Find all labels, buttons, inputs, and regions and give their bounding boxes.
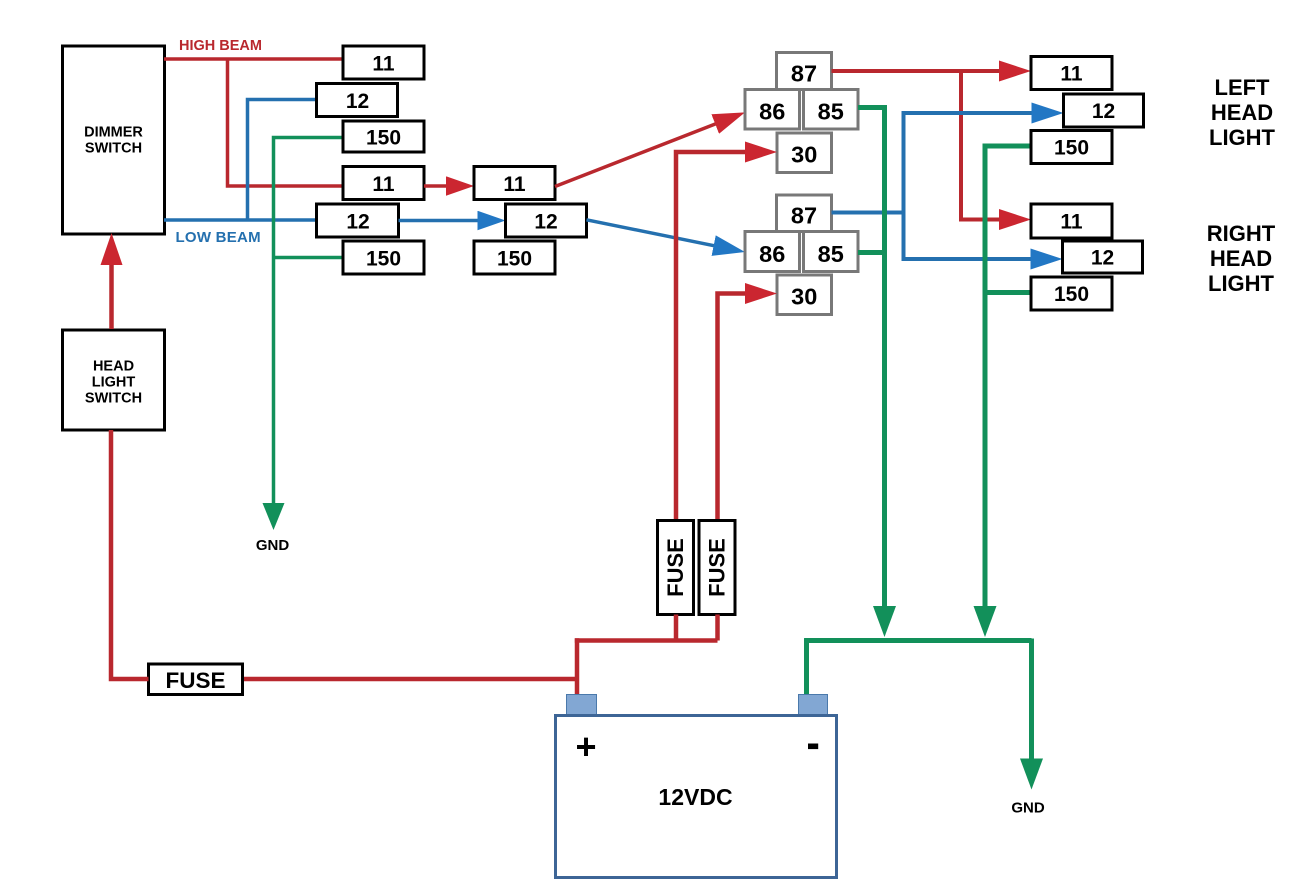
wire: blue vertical down to right headlight 12 (904, 213, 1047, 260)
wire: red riser to battery plus (575, 638, 580, 695)
svg-text:+: + (575, 726, 596, 767)
wire: green from left headlight 150 down to ground bus (985, 146, 1031, 622)
connector pin box 12 mid (506, 204, 587, 237)
wire: red from relay1 87 to left headlight 11 (832, 69, 1016, 73)
wire: red from battery riser to main fuse (243, 677, 578, 682)
svg-text:HEAD: HEAD (1211, 100, 1273, 125)
svg-text:11: 11 (503, 173, 526, 196)
wire: high beam red from dimmer to pin 11 (164, 57, 343, 61)
svg-text:12: 12 (346, 211, 369, 234)
left headlight pin 12 (1064, 94, 1144, 127)
wire: red arrow pin 11 to pin 11 mid (424, 184, 460, 188)
svg-text:SWITCH: SWITCH (85, 391, 142, 407)
svg-text:12: 12 (346, 90, 369, 113)
right headlight pin 11 (1031, 204, 1112, 238)
dimmer switch box (63, 46, 165, 234)
connector pin box 150 lower-left (343, 241, 424, 274)
wire: green bus drop to battery minus (804, 638, 809, 695)
connector pin box 150 mid (474, 241, 555, 274)
wire: head light switch to dimmer switch (red up arrow) (109, 249, 114, 329)
connector pin box 11 upper-left (343, 46, 424, 79)
svg-text:HEAD: HEAD (93, 359, 134, 375)
battery 12VDC (556, 716, 837, 878)
main fuse box (149, 664, 243, 695)
svg-text:GND: GND (256, 537, 290, 554)
svg-text:85: 85 (818, 99, 844, 125)
svg-text:11: 11 (372, 53, 395, 76)
connector pin box 12 upper-left (317, 84, 398, 117)
svg-text:150: 150 (497, 248, 532, 271)
svg-text:LIGHT: LIGHT (1208, 271, 1275, 296)
left headlight pin 11 (1031, 57, 1112, 90)
relay 1 pin 30 (777, 133, 832, 173)
relay 2 pin 30 (777, 275, 832, 315)
relay 1 pin 87 (777, 53, 832, 90)
svg-text:11: 11 (1060, 211, 1083, 234)
wire: red bus below fuses (575, 615, 718, 641)
wire: green from relay1 85 down to ground bus (858, 108, 885, 622)
relay 2 pin 85 (804, 232, 859, 272)
wire: green ground bus (804, 638, 1031, 643)
svg-text:30: 30 (791, 284, 817, 310)
head light switch box (63, 330, 165, 430)
relay 2 pin 86 (745, 232, 800, 272)
svg-text:86: 86 (759, 241, 785, 267)
wire: blue from relay2 87 to vertical (832, 211, 904, 215)
wire: red diagonal pin 11 mid to relay1 86 (555, 118, 730, 186)
svg-text:FUSE: FUSE (663, 538, 688, 597)
svg-text:FUSE: FUSE (705, 538, 730, 597)
svg-text:12: 12 (534, 211, 557, 234)
wire: blue vertical up to left headlight 12 (904, 113, 1048, 213)
wire: green bus to GND arrow (1029, 639, 1034, 775)
wire: green ground from pins 150 down to GND (274, 138, 344, 517)
svg-text:87: 87 (791, 61, 817, 87)
relay 1 pin 86 (745, 90, 800, 130)
svg-text:LIGHT: LIGHT (1209, 125, 1276, 150)
battery positive terminal (567, 695, 597, 717)
svg-text:150: 150 (366, 248, 401, 271)
wire: green branch to right headlight 150 (985, 290, 1031, 295)
connector pin box 11 lower-left (343, 167, 424, 200)
connector pin box 12 lower-left (317, 204, 399, 237)
wire: blue arrow pin 12 to pin 12 mid (399, 219, 492, 223)
label LEFT HEAD LIGHT (1209, 75, 1276, 150)
right headlight pin 12 (1063, 241, 1143, 273)
svg-text:30: 30 (791, 142, 817, 168)
svg-text:SWITCH: SWITCH (85, 141, 142, 157)
wire: low beam blue from dimmer to pin 12 lower (164, 218, 317, 222)
left headlight pin 150 (1031, 131, 1112, 164)
svg-text:150: 150 (1054, 283, 1089, 306)
wire: high beam red branch to pin 11 lower (228, 59, 344, 186)
connector pin box 11 mid (474, 167, 555, 200)
label RIGHT HEAD LIGHT (1207, 221, 1276, 296)
svg-text:LIGHT: LIGHT (92, 375, 136, 391)
svg-text:150: 150 (366, 127, 401, 150)
right headlight pin 150 (1031, 277, 1112, 310)
wire: red branch down to right headlight 11 (961, 71, 1015, 220)
relay 1 pin 85 (804, 90, 859, 130)
svg-text:DIMMER: DIMMER (84, 125, 143, 141)
svg-text:86: 86 (759, 99, 785, 125)
wire: blue diagonal pin 12 mid to relay2 86 (587, 220, 730, 249)
svg-text:12VDC: 12VDC (658, 784, 732, 810)
svg-text:150: 150 (1054, 137, 1089, 160)
wire: red from main fuse to head light switch (111, 430, 149, 679)
svg-text:87: 87 (791, 203, 817, 229)
fuse box vertical 2 (699, 521, 735, 615)
fuse box vertical 1 (658, 521, 694, 615)
svg-text:12: 12 (1091, 247, 1114, 270)
svg-text:85: 85 (818, 241, 844, 267)
wire: fuse2 up to relay2 30 (red) (718, 294, 762, 615)
svg-text:11: 11 (372, 173, 395, 196)
wire: green from relay2 85 joining vertical (858, 250, 885, 255)
wire: low beam blue branch up to pin 12 upper (248, 100, 317, 221)
svg-text:HEAD: HEAD (1210, 246, 1272, 271)
svg-text:RIGHT: RIGHT (1207, 221, 1276, 246)
battery negative terminal (799, 695, 828, 717)
svg-text:GND: GND (1011, 800, 1045, 817)
svg-text:LOW BEAM: LOW BEAM (176, 229, 261, 246)
svg-text:FUSE: FUSE (165, 668, 225, 693)
svg-text:12: 12 (1092, 100, 1115, 123)
wire: fuse1 up to relay1 30 (red) (676, 152, 761, 615)
svg-text:LEFT: LEFT (1215, 75, 1271, 100)
svg-text:HIGH BEAM: HIGH BEAM (179, 38, 262, 54)
connector pin box 150 upper-left (343, 121, 424, 152)
relay 2 pin 87 (777, 195, 832, 232)
svg-text:11: 11 (1060, 63, 1083, 86)
